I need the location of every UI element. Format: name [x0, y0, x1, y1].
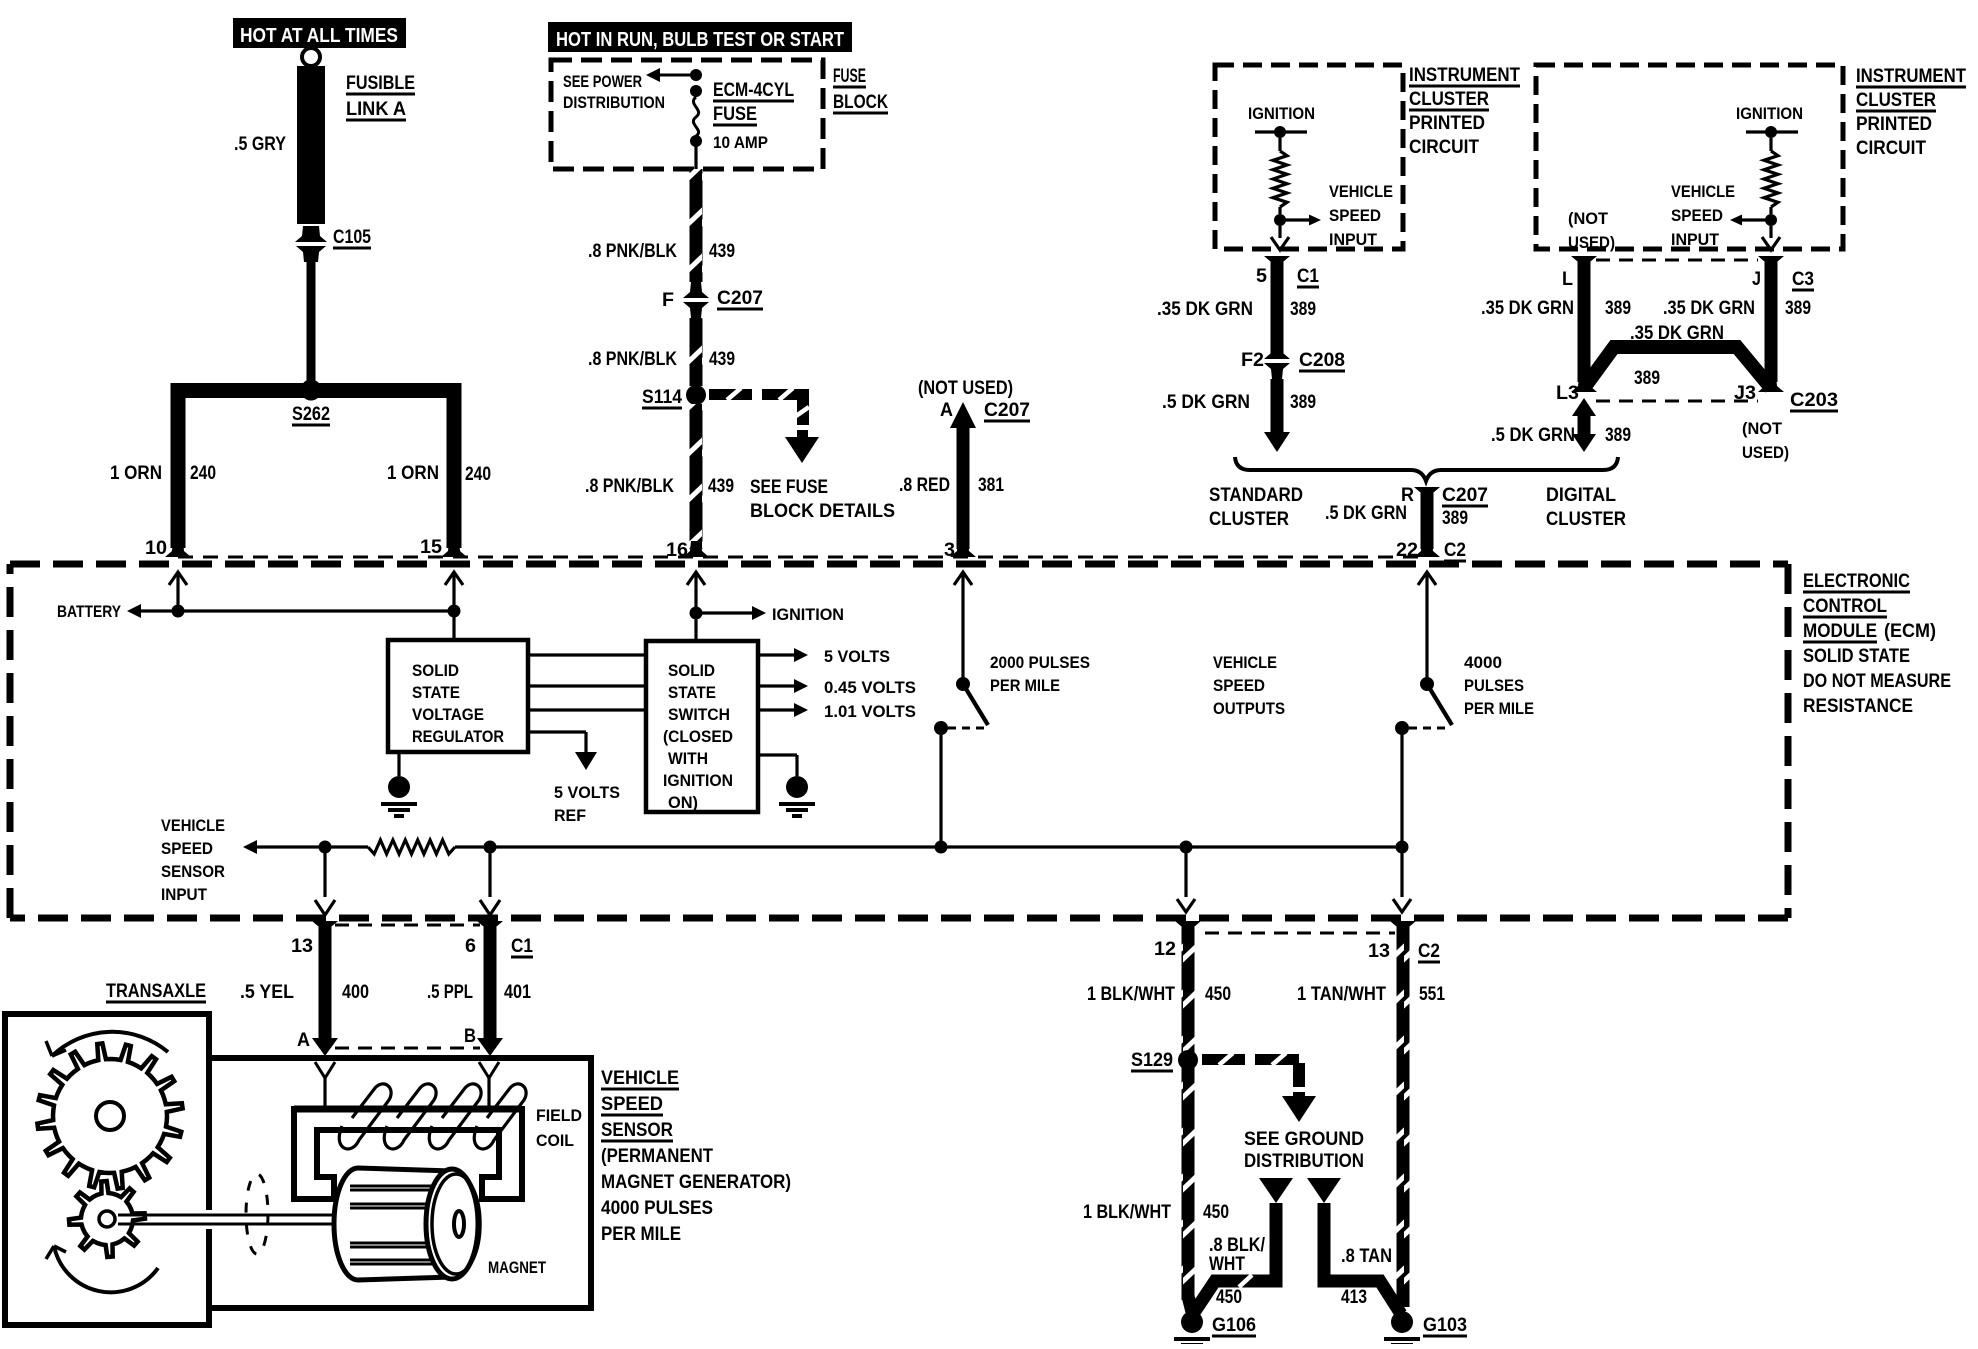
svg-text:USED): USED) [1742, 443, 1789, 462]
svg-text:13: 13 [1368, 941, 1390, 962]
svg-text:SPEED: SPEED [1329, 206, 1381, 225]
wire 381 to pin 3 [957, 424, 970, 549]
svg-text:STATE: STATE [412, 683, 460, 702]
pin 13 stub wire 400 [312, 921, 338, 937]
svg-text:F2: F2 [1241, 350, 1264, 371]
wire 551 pin 13 to G103 [1390, 921, 1416, 937]
svg-text:1.01 VOLTS: 1.01 VOLTS [824, 702, 916, 721]
svg-text:1 ORN: 1 ORN [387, 463, 439, 484]
svg-text:439: 439 [708, 476, 734, 497]
ground G103 [1391, 1311, 1413, 1333]
svg-text:VOLTAGE: VOLTAGE [412, 705, 484, 724]
svg-text:389: 389 [1605, 298, 1631, 319]
wire 240 from C105 to S262 [307, 258, 316, 386]
svg-text:0.45 VOLTS: 0.45 VOLTS [824, 678, 916, 697]
field coil winding [339, 1084, 526, 1149]
svg-text:S262: S262 [292, 404, 330, 425]
svg-text:PER MILE: PER MILE [1464, 699, 1534, 718]
svg-text:.5 GRY: .5 GRY [234, 134, 286, 155]
svg-text:IGNITION: IGNITION [1736, 104, 1803, 123]
svg-text:MAGNET GENERATOR): MAGNET GENERATOR) [601, 1172, 791, 1193]
switch 4000 ppm [1420, 677, 1434, 691]
svg-text:SPEED: SPEED [1671, 206, 1723, 225]
svg-text:INSTRUMENT: INSTRUMENT [1409, 65, 1520, 86]
svg-text:SOLID STATE: SOLID STATE [1803, 646, 1910, 667]
svg-text:TRANSAXLE: TRANSAXLE [106, 981, 206, 1002]
svg-text:389: 389 [1442, 508, 1468, 529]
switch 2000 ppm [956, 677, 970, 691]
svg-text:USED): USED) [1568, 233, 1615, 252]
pin 3 entry arrow [954, 572, 972, 585]
wire .8 BLK/WHT [1193, 1203, 1276, 1314]
pin 16 entry arrow [687, 572, 705, 585]
svg-text:CLUSTER: CLUSTER [1856, 90, 1936, 111]
wire to solid state switch [694, 613, 697, 641]
pin 6 C1 stub wire 401 [477, 921, 503, 937]
svg-text:SPEED: SPEED [601, 1094, 663, 1115]
wire 389 L down to L3 [1578, 262, 1591, 382]
svg-text:IGNITION: IGNITION [772, 605, 844, 624]
svg-text:.35 DK GRN: .35 DK GRN [1481, 298, 1574, 319]
svg-text:.5 PPL: .5 PPL [427, 982, 473, 1003]
svg-text:1 BLK/WHT: 1 BLK/WHT [1083, 1202, 1171, 1223]
ground G106 [1181, 1311, 1203, 1333]
svg-text:551: 551 [1419, 984, 1445, 1005]
svg-text:SOLID: SOLID [668, 661, 715, 680]
svg-text:REGULATOR: REGULATOR [412, 727, 504, 746]
svg-text:VEHICLE: VEHICLE [1329, 182, 1393, 201]
splice S114 [686, 385, 706, 405]
svg-text:VEHICLE: VEHICLE [1671, 182, 1735, 201]
svg-text:4000: 4000 [1464, 653, 1502, 672]
svg-text:COIL: COIL [536, 1131, 574, 1150]
svg-text:VEHICLE: VEHICLE [1213, 653, 1277, 672]
svg-text:C207: C207 [717, 288, 763, 309]
field coil frame [294, 1106, 522, 1113]
bridge wire 389 L3 to J3 [1584, 347, 1771, 388]
svg-text:.5 DK GRN: .5 DK GRN [1325, 503, 1407, 524]
svg-text:DISTRIBUTION: DISTRIBUTION [563, 93, 665, 112]
svg-text:IGNITION: IGNITION [663, 771, 733, 790]
wire 439 S114 to pin 16 [690, 404, 703, 549]
transaxle box [5, 1014, 209, 1325]
svg-text:WITH: WITH [668, 749, 708, 768]
svg-text:PRINTED: PRINTED [1856, 114, 1932, 135]
svg-text:SWITCH: SWITCH [668, 705, 730, 724]
sensor shaft [203, 1210, 215, 1229]
svg-text:C3: C3 [1792, 269, 1814, 290]
svg-text:ECM-4CYL: ECM-4CYL [713, 80, 794, 101]
svg-text:A: A [940, 400, 953, 421]
svg-text:FUSIBLE: FUSIBLE [346, 73, 415, 94]
ECM connector row dashed line [178, 556, 1427, 559]
svg-text:S129: S129 [1131, 1050, 1173, 1071]
wire to pin 12 output [1184, 847, 1187, 897]
svg-text:C1: C1 [511, 936, 533, 957]
svg-text:240: 240 [465, 464, 491, 485]
svg-text:C207: C207 [984, 400, 1030, 421]
vehicle speed input node standard [1274, 214, 1286, 226]
solid state voltage regulator box [388, 640, 528, 752]
svg-text:INSTRUMENT: INSTRUMENT [1856, 66, 1966, 87]
svg-text:.5 DK GRN: .5 DK GRN [1162, 392, 1250, 413]
svg-text:IGNITION: IGNITION [1248, 104, 1315, 123]
dashed branch to fuse block details [709, 389, 752, 400]
svg-text:FIELD: FIELD [536, 1106, 582, 1125]
svg-text:C208: C208 [1299, 350, 1345, 371]
svg-text:SEE FUSE: SEE FUSE [750, 477, 828, 498]
arrow to ground distribution [1293, 1092, 1305, 1098]
instrument cluster printed circuit box digital [1536, 65, 1843, 249]
wire to pin 6 sensor [488, 847, 491, 897]
svg-text:(NOT: (NOT [1568, 209, 1609, 228]
svg-text:.8 BLK/: .8 BLK/ [1209, 1235, 1266, 1256]
svg-text:.35 DK GRN: .35 DK GRN [1663, 298, 1755, 319]
svg-text:CLUSTER: CLUSTER [1209, 509, 1289, 530]
voltage regulator ground [397, 752, 400, 776]
svg-text:.35 DK GRN: .35 DK GRN [1157, 299, 1253, 320]
svg-text:CONTROL: CONTROL [1803, 596, 1887, 617]
driven gear rotation arc [54, 1246, 158, 1292]
svg-text:S114: S114 [642, 387, 682, 408]
arrow see fuse block details [797, 430, 808, 438]
header HOT IN RUN, BULB TEST OR START [548, 22, 852, 52]
connector row dashed line L to J [1596, 259, 1758, 262]
transaxle drive gear [37, 1043, 182, 1188]
svg-text:RESISTANCE: RESISTANCE [1803, 696, 1913, 717]
svg-text:PRINTED: PRINTED [1409, 113, 1485, 134]
wire 450 pin 12 to S129 [1175, 921, 1201, 937]
svg-text:.8 RED: .8 RED [899, 475, 950, 496]
svg-text:HOT IN RUN, BULB TEST OR START: HOT IN RUN, BULB TEST OR START [556, 29, 844, 51]
pin A entry chevron [315, 1062, 335, 1078]
svg-text:389: 389 [1785, 298, 1811, 319]
svg-text:L: L [1562, 269, 1573, 290]
switch output arrows [758, 653, 795, 656]
svg-text:OUTPUTS: OUTPUTS [1213, 699, 1285, 718]
svg-text:ELECTRONIC: ELECTRONIC [1803, 571, 1910, 592]
svg-text:FUSE: FUSE [833, 66, 866, 87]
svg-text:C1: C1 [1297, 266, 1319, 287]
svg-text:C2: C2 [1444, 540, 1466, 561]
svg-text:413: 413 [1341, 1287, 1367, 1308]
wire to voltage regulator [452, 611, 455, 640]
wire to pin J [1769, 226, 1772, 238]
svg-text:DO NOT MEASURE: DO NOT MEASURE [1803, 671, 1951, 692]
ECM-4CYL fuse element [690, 69, 702, 81]
svg-text:.5 DK GRN: .5 DK GRN [1491, 425, 1575, 446]
svg-text:J: J [1752, 269, 1761, 290]
connector F2 C208 [1264, 343, 1290, 359]
connector C203 not used [1596, 400, 1758, 403]
svg-text:450: 450 [1216, 1287, 1242, 1308]
svg-text:389: 389 [1634, 368, 1660, 389]
pin 10 entry arrow [169, 572, 187, 585]
svg-text:(CLOSED: (CLOSED [663, 727, 733, 746]
svg-text:BATTERY: BATTERY [57, 602, 122, 621]
pin L stub [1571, 256, 1597, 272]
svg-text:PER MILE: PER MILE [990, 676, 1060, 695]
svg-text:10 AMP: 10 AMP [713, 133, 768, 152]
svg-text:G103: G103 [1423, 1315, 1467, 1336]
svg-text:SEE GROUND: SEE GROUND [1244, 1129, 1364, 1150]
svg-text:INPUT: INPUT [161, 885, 208, 904]
svg-text:1 TAN/WHT: 1 TAN/WHT [1297, 984, 1386, 1005]
svg-text:.8 PNK/BLK: .8 PNK/BLK [585, 476, 674, 497]
svg-text:389: 389 [1605, 425, 1631, 446]
connector C105 [295, 226, 327, 242]
solid state switch box [646, 641, 758, 812]
svg-text:SEE POWER: SEE POWER [563, 72, 642, 91]
wire 389 C208 to cluster brace [1271, 379, 1284, 435]
svg-text:389: 389 [1290, 299, 1316, 320]
svg-text:5 VOLTS: 5 VOLTS [554, 783, 620, 802]
connector row A-B dashed [335, 1047, 480, 1050]
svg-text:SOLID: SOLID [412, 661, 459, 680]
instrument cluster printed circuit box standard [1215, 65, 1403, 249]
wire 389 J down to J3 [1765, 262, 1778, 382]
svg-text:439: 439 [709, 241, 735, 262]
svg-text:ON): ON) [668, 793, 698, 812]
svg-text:10: 10 [145, 538, 167, 559]
svg-text:SPEED: SPEED [161, 839, 213, 858]
wire 439 C207 to S114 [690, 318, 703, 386]
ignition feed line [690, 607, 703, 620]
wire to pin 5 [1278, 226, 1281, 238]
svg-text:C105: C105 [333, 227, 371, 248]
svg-text:(PERMANENT: (PERMANENT [601, 1146, 713, 1167]
bottom connector row dashed line 12-13 [1205, 932, 1395, 935]
resistor standard cluster [1278, 138, 1281, 151]
splice S262 [171, 383, 461, 398]
svg-text:2000 PULSES: 2000 PULSES [990, 653, 1090, 672]
svg-text:(NOT USED): (NOT USED) [918, 378, 1013, 399]
svg-text:CIRCUIT: CIRCUIT [1856, 138, 1926, 159]
svg-text:5 VOLTS: 5 VOLTS [824, 647, 890, 666]
svg-text:CLUSTER: CLUSTER [1546, 509, 1626, 530]
header HOT AT ALL TIMES [233, 18, 406, 48]
connector R C207 wire to pin 22 [1414, 487, 1440, 503]
svg-text:6: 6 [465, 936, 476, 957]
svg-text:(ECM): (ECM) [1884, 621, 1936, 642]
5 volts ref line [528, 730, 586, 733]
svg-text:PER MILE: PER MILE [601, 1224, 681, 1245]
ground distribution arrow left [1259, 1178, 1293, 1203]
svg-text:15: 15 [420, 537, 442, 558]
svg-text:4000 PULSES: 4000 PULSES [601, 1198, 713, 1219]
svg-text:DISTRIBUTION: DISTRIBUTION [1244, 1151, 1364, 1172]
svg-text:VEHICLE: VEHICLE [161, 816, 225, 835]
svg-text:BLOCK DETAILS: BLOCK DETAILS [750, 501, 895, 522]
svg-text:SENSOR: SENSOR [161, 862, 225, 881]
svg-text:INPUT: INPUT [1671, 230, 1720, 249]
dashed branch to ground distribution [1202, 1054, 1245, 1065]
battery terminal ring [302, 48, 320, 66]
pin 15 entry arrow [445, 572, 463, 585]
svg-text:13: 13 [291, 936, 313, 957]
vehicle speed input node digital [1765, 214, 1777, 226]
wire .8 TAN [1324, 1203, 1401, 1314]
svg-text:C2: C2 [1418, 941, 1440, 962]
svg-text:VEHICLE: VEHICLE [601, 1068, 679, 1089]
pin B entry chevron [479, 1062, 499, 1078]
svg-text:.8 PNK/BLK: .8 PNK/BLK [588, 349, 677, 370]
svg-text:CLUSTER: CLUSTER [1409, 89, 1489, 110]
svg-text:INPUT: INPUT [1329, 230, 1378, 249]
svg-text:FUSE: FUSE [713, 104, 757, 125]
vehicle speed sensor input line [243, 840, 257, 854]
svg-text:MAGNET: MAGNET [488, 1258, 546, 1277]
vehicle speed sensor box [209, 1058, 591, 1308]
ground distribution arrow right [1307, 1178, 1341, 1203]
wire to pin 13 output [1400, 847, 1403, 897]
transaxle driven gear [69, 1181, 145, 1257]
pin J C3 stub [1758, 256, 1784, 272]
svg-text:A: A [297, 1030, 310, 1051]
svg-text:450: 450 [1205, 984, 1231, 1005]
svg-text:5: 5 [1256, 266, 1267, 287]
svg-text:DIGITAL: DIGITAL [1546, 485, 1616, 506]
battery feed line [141, 609, 454, 612]
svg-text:CIRCUIT: CIRCUIT [1409, 137, 1479, 158]
svg-text:BLOCK: BLOCK [833, 92, 888, 113]
shaft rotation dashed ellipse [246, 1174, 268, 1254]
svg-text:G106: G106 [1212, 1315, 1256, 1336]
svg-text:SENSOR: SENSOR [601, 1120, 673, 1141]
svg-text:REF: REF [554, 806, 586, 825]
svg-text:L3: L3 [1556, 383, 1579, 404]
pin 5 C1 stub [1264, 256, 1290, 272]
magnet drum [334, 1168, 382, 1280]
svg-text:439: 439 [709, 349, 735, 370]
pin 22 entry arrow [1418, 572, 1436, 585]
svg-text:381: 381 [978, 475, 1004, 496]
fuse block dashed box [551, 60, 823, 169]
svg-text:F: F [662, 290, 674, 311]
svg-text:.5 YEL: .5 YEL [240, 982, 294, 1003]
svg-text:WHT: WHT [1209, 1254, 1245, 1275]
regulator to switch lines [528, 653, 646, 656]
wire 450 S129 to G106 [1182, 1068, 1195, 1300]
svg-text:C203: C203 [1790, 390, 1838, 411]
svg-text:12: 12 [1154, 939, 1176, 960]
svg-text:HOT AT ALL TIMES: HOT AT ALL TIMES [240, 25, 398, 47]
connector F C207 [683, 282, 709, 298]
svg-text:(NOT: (NOT [1742, 419, 1783, 438]
svg-text:B: B [464, 1026, 476, 1047]
svg-text:1 ORN: 1 ORN [110, 463, 162, 484]
svg-text:400: 400 [342, 982, 369, 1003]
svg-text:STANDARD: STANDARD [1209, 485, 1303, 506]
svg-text:.8 PNK/BLK: .8 PNK/BLK [588, 241, 677, 262]
svg-text:240: 240 [190, 463, 216, 484]
svg-text:389: 389 [1290, 392, 1316, 413]
svg-text:C207: C207 [1442, 485, 1488, 506]
svg-text:STATE: STATE [668, 683, 716, 702]
fusible link A element [297, 66, 325, 224]
wire to pin 13 sensor [323, 847, 326, 897]
wire 439 fuse block to C207 [690, 169, 703, 282]
svg-text:401: 401 [504, 982, 531, 1003]
resistor digital cluster [1769, 138, 1772, 151]
cluster brace [1235, 457, 1618, 481]
drive gear rotation arc [52, 1032, 168, 1056]
wire 240 right leg to pin 15 [447, 383, 462, 548]
svg-text:LINK A: LINK A [346, 99, 406, 120]
electronic control module dashed box [10, 561, 1788, 568]
wire 389 L3 to brace [1572, 398, 1596, 416]
svg-text:MODULE: MODULE [1803, 621, 1877, 642]
svg-text:450: 450 [1203, 1202, 1229, 1223]
svg-text:.35 DK GRN: .35 DK GRN [1630, 323, 1724, 344]
wire 240 left leg to pin 10 [171, 383, 186, 548]
svg-text:PULSES: PULSES [1464, 676, 1524, 695]
svg-text:1 BLK/WHT: 1 BLK/WHT [1087, 984, 1175, 1005]
switch ground [758, 753, 797, 756]
svg-text:SPEED: SPEED [1213, 676, 1265, 695]
bottom connector row dashed line 13-6 [335, 924, 480, 927]
splice S129 [1178, 1050, 1198, 1070]
svg-text:.8 TAN: .8 TAN [1341, 1246, 1392, 1267]
